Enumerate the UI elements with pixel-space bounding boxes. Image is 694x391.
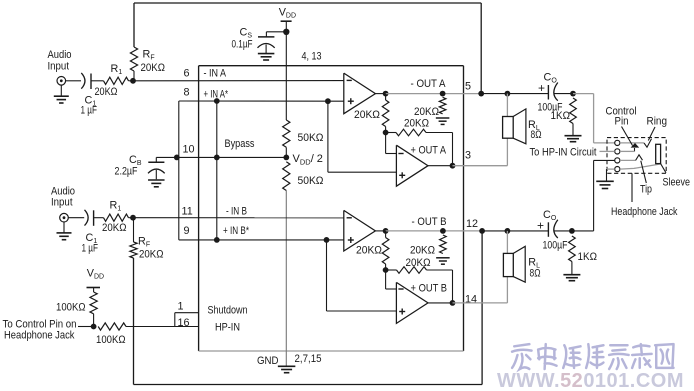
svg-text:20KΩ: 20KΩ bbox=[102, 222, 127, 234]
jack contact sleeve (circle 4) bbox=[615, 167, 620, 172]
headphone jack J1 (dashed outline) bbox=[607, 138, 666, 174]
jack control-pin wiper bbox=[634, 148, 636, 151]
svg-text:CO: CO bbox=[543, 209, 557, 222]
wire OUT A to headphone jack bbox=[573, 93, 594, 95]
svg-text:100KΩ: 100KΩ bbox=[96, 334, 126, 346]
node A gain junction bbox=[383, 130, 389, 136]
svg-text:- OUT B: - OUT B bbox=[412, 216, 447, 228]
wire external tie +INA* to +INB* bbox=[178, 101, 180, 240]
ground (1K B) bbox=[563, 274, 580, 276]
ground (input B) bbox=[63, 222, 65, 233]
svg-text:To HP-IN Circuit: To HP-IN Circuit bbox=[530, 147, 597, 159]
wire input B to C1 bbox=[68, 217, 84, 219]
svg-text:VDD: VDD bbox=[279, 7, 296, 20]
node +IN B internal junction bbox=[214, 237, 220, 243]
wire OUT A to speaker top bbox=[506, 94, 508, 117]
svg-text:+: + bbox=[537, 219, 544, 233]
svg-text:Audio: Audio bbox=[51, 185, 75, 197]
wire +OUT B output bbox=[428, 302, 453, 304]
node speaker B tap bbox=[505, 228, 511, 234]
node CO_A / 1K junction bbox=[570, 91, 576, 97]
jack contact ring (circle 1) bbox=[615, 140, 620, 145]
wire pin 9 +IN B* bbox=[179, 239, 344, 241]
wire A noninverting from +INA bbox=[327, 101, 329, 172]
svg-text:1 µF: 1 µF bbox=[81, 105, 98, 117]
wire pin 10 bypass to VDD/2 bbox=[177, 156, 286, 158]
svg-text:R1: R1 bbox=[111, 63, 123, 76]
node B gain junction bbox=[383, 267, 389, 273]
svg-text:8Ω: 8Ω bbox=[531, 129, 542, 141]
svg-text:8: 8 bbox=[184, 87, 190, 99]
svg-text:HP-IN: HP-IN bbox=[215, 322, 240, 334]
svg-text:1 µF: 1 µF bbox=[82, 243, 99, 255]
svg-text:+ OUT A: + OUT A bbox=[411, 145, 447, 157]
svg-text:+ IN B*: + IN B* bbox=[223, 225, 250, 237]
svg-text:Headphone Jack: Headphone Jack bbox=[4, 330, 75, 342]
node +IN A / opamp A+ junction bbox=[325, 98, 331, 104]
node -IN A junction bbox=[130, 78, 136, 84]
svg-text:9: 9 bbox=[184, 225, 190, 237]
jack plug body bbox=[656, 144, 661, 163]
svg-text:100µF: 100µF bbox=[543, 240, 568, 252]
node bypass/CB junction bbox=[174, 155, 180, 161]
node 20K gnd tap B bbox=[440, 228, 446, 234]
node VDD junction bbox=[283, 29, 289, 35]
svg-text:4, 13: 4, 13 bbox=[302, 51, 322, 63]
node +OUT B junction bbox=[450, 300, 456, 306]
wire op-amp A output bbox=[375, 93, 385, 95]
svg-text:20KΩ: 20KΩ bbox=[414, 106, 439, 118]
ground (jack sleeve) bbox=[606, 169, 608, 181]
wire OUT A to speaker/cap bbox=[481, 93, 548, 95]
svg-text:20KΩ: 20KΩ bbox=[141, 62, 166, 74]
svg-text:- IN A: - IN A bbox=[204, 68, 227, 80]
wire VDD rail down into pins 4,13 bbox=[285, 32, 287, 120]
svg-text:50KΩ: 50KΩ bbox=[298, 175, 324, 187]
svg-text:Headphone Jack: Headphone Jack bbox=[611, 206, 678, 218]
node feedback A junction bbox=[478, 91, 484, 97]
wire +OUT A row (gray) bbox=[453, 165, 508, 167]
wire B noninverting from +INB bbox=[326, 240, 328, 311]
svg-text:Shutdown: Shutdown bbox=[208, 305, 248, 317]
wire pin 1 shutdown stub bbox=[175, 312, 199, 314]
wire feedback A: RF top rail bbox=[134, 2, 481, 4]
wire pin 16 HP-IN bbox=[126, 326, 199, 328]
node -IN B junction bbox=[130, 215, 136, 221]
svg-text:20KΩ: 20KΩ bbox=[410, 245, 435, 257]
ground (B divider) bbox=[436, 257, 450, 259]
svg-text:20KΩ: 20KΩ bbox=[354, 109, 380, 121]
wire B inverting stub bbox=[385, 270, 387, 289]
ground (1K A) bbox=[565, 135, 582, 137]
wire input A to C1 bbox=[66, 80, 81, 82]
node OUT B bbox=[383, 228, 389, 234]
svg-text:+: + bbox=[538, 81, 545, 95]
svg-text:- OUT A: - OUT A bbox=[411, 78, 447, 90]
wire +OUT B row (gray) bbox=[453, 302, 508, 304]
svg-text:GND: GND bbox=[257, 355, 279, 367]
svg-text:50KΩ: 50KΩ bbox=[298, 132, 324, 144]
svg-text:20KΩ: 20KΩ bbox=[404, 118, 429, 130]
op-amp U1C (top, channel B) bbox=[344, 210, 376, 251]
svg-text:R1: R1 bbox=[110, 200, 122, 213]
svg-text:WWW.520101.COM: WWW.520101.COM bbox=[497, 370, 684, 391]
svg-text:20KΩ: 20KΩ bbox=[356, 245, 382, 257]
wire OUT B to headphone jack tip bbox=[572, 230, 594, 232]
svg-text:10: 10 bbox=[183, 144, 195, 156]
wire feedback B rail bbox=[481, 231, 483, 385]
svg-text:1KΩ: 1KΩ bbox=[551, 110, 571, 122]
node OUT A bbox=[383, 91, 389, 97]
svg-text:12: 12 bbox=[466, 218, 478, 230]
op-amp U1B (bottom, channel A inverted) bbox=[396, 145, 428, 186]
ground (CB) bbox=[148, 179, 165, 181]
node 20K gnd tap A bbox=[440, 91, 446, 97]
svg-text:8Ω: 8Ω bbox=[530, 268, 541, 280]
svg-text:VDD: VDD bbox=[87, 268, 104, 281]
svg-text:Bypass: Bypass bbox=[225, 138, 256, 150]
node speaker A tap bbox=[505, 91, 511, 97]
node VDD/2 bbox=[283, 155, 289, 161]
node +IN A / internal rail junction bbox=[214, 98, 220, 104]
op-amp IC block outline U1 bbox=[199, 65, 464, 67]
node feedback B junction bbox=[479, 228, 485, 234]
node shutdown junction bbox=[91, 324, 97, 330]
wire pin 8 +IN A* bbox=[179, 100, 344, 102]
svg-text:2.2µF: 2.2µF bbox=[115, 166, 138, 178]
svg-text:1: 1 bbox=[178, 301, 184, 313]
svg-text:CO: CO bbox=[544, 72, 558, 85]
svg-text:20KΩ: 20KΩ bbox=[139, 249, 164, 261]
node +IN B / opamp B+ junction bbox=[324, 237, 330, 243]
wire C1 to R1 (A) bbox=[91, 80, 104, 82]
wire OUT B to speaker top bbox=[506, 231, 508, 254]
svg-text:6: 6 bbox=[184, 68, 190, 80]
watermark (site logo) bbox=[512, 344, 673, 369]
wire internal rail +INA*/bypass/+INB* bbox=[216, 101, 218, 240]
svg-text:20KΩ: 20KΩ bbox=[406, 257, 431, 269]
speaker RL 8ohm (channel B) bbox=[503, 253, 513, 276]
wire pin 11 -IN B bbox=[133, 217, 344, 219]
svg-text:11: 11 bbox=[182, 206, 193, 218]
jack contact control pin (circle 2) bbox=[615, 149, 620, 154]
svg-text:Input: Input bbox=[51, 197, 73, 209]
svg-text:Pin: Pin bbox=[615, 116, 629, 128]
svg-text:+ OUT B: + OUT B bbox=[411, 283, 448, 295]
wire +OUT A output bbox=[428, 165, 453, 167]
svg-text:2,7,15: 2,7,15 bbox=[295, 353, 322, 365]
svg-text:RF: RF bbox=[138, 236, 150, 249]
svg-text:- IN B: - IN B bbox=[226, 206, 247, 218]
svg-text:0.1µF: 0.1µF bbox=[232, 39, 253, 51]
jack contact tip (circle 3) bbox=[615, 158, 620, 163]
wire A inverting stub bbox=[385, 133, 387, 154]
svg-text:3: 3 bbox=[465, 150, 471, 162]
svg-text:16: 16 bbox=[178, 317, 190, 329]
svg-text:1KΩ: 1KΩ bbox=[578, 251, 598, 263]
svg-text:RF: RF bbox=[143, 49, 155, 62]
ground (A divider) bbox=[436, 117, 450, 119]
op-amp U1A (top, channel A) bbox=[344, 73, 376, 114]
svg-text:VDD/ 2: VDD/ 2 bbox=[293, 153, 323, 167]
svg-text:100KΩ: 100KΩ bbox=[56, 302, 86, 314]
svg-text:Ring: Ring bbox=[647, 116, 668, 128]
node CO_B / 1K junction bbox=[569, 228, 575, 234]
svg-text:Sleeve: Sleeve bbox=[663, 177, 691, 189]
ground (input A) bbox=[60, 85, 62, 96]
speaker RL 8ohm (channel A) bbox=[503, 117, 514, 139]
svg-text:14: 14 bbox=[465, 294, 477, 306]
wire VDD to bypass cap CS bbox=[266, 31, 286, 33]
node +OUT A junction bbox=[450, 163, 456, 169]
svg-text:Tip: Tip bbox=[640, 184, 652, 196]
wire VDD/2 rail to GND pins bbox=[285, 191, 287, 366]
wire control pin stub bbox=[78, 326, 94, 328]
svg-text:20KΩ: 20KΩ bbox=[95, 86, 118, 98]
svg-text:Input: Input bbox=[48, 61, 70, 73]
svg-text:5: 5 bbox=[465, 81, 471, 93]
wire C1 to R1 (B) bbox=[94, 217, 104, 219]
node bypass internal junction bbox=[214, 155, 220, 161]
wire -OUT A row (gray) bbox=[386, 93, 482, 95]
ground (CS) bbox=[258, 53, 275, 55]
wire -OUT B row (gray) bbox=[386, 230, 483, 232]
svg-text:Audio: Audio bbox=[48, 49, 72, 61]
wire OUT B to speaker/cap bbox=[482, 230, 548, 232]
wire pin 6 -IN A bbox=[133, 80, 344, 82]
wire op-amp B output bbox=[375, 230, 385, 232]
op-amp U1D (bottom, channel B inverted) bbox=[396, 282, 428, 323]
